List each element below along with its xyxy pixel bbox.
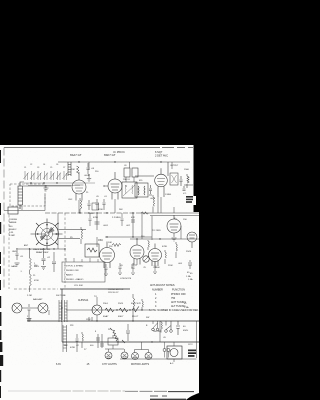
svg-text:6SA7 GT: 6SA7 GT [70,153,82,157]
inner dashed enclosure (band switch) [64,213,66,288]
tube V5b 6SQ7 [149,244,162,267]
svg-text:SW: SW [146,317,149,319]
svg-text:A.C.: A.C. [170,362,174,365]
tube V4 6SA7 converter [100,242,115,269]
svg-text:1500: 1500 [184,169,190,171]
svg-text:I.F.: I.F. [124,165,127,167]
svg-text:C7: C7 [63,167,65,169]
resistor R1 above V1 [77,166,80,174]
city light lamp 2 [121,352,128,359]
svg-text:2.2M: 2.2M [27,295,32,297]
plate resistor under V3 [153,195,155,213]
caps below V2 [96,199,106,210]
resistor horizontal mid [112,244,121,247]
svg-text:9.5MC: 9.5MC [9,235,16,237]
svg-text:750: 750 [171,297,176,300]
ant adjust table [149,272,199,312]
wire to switch [4,186,71,211]
svg-text:6SK7: 6SK7 [118,316,124,318]
svg-text:CITY LIGHTS: CITY LIGHTS [102,363,117,366]
grid cap wire above V4 [95,213,100,230]
svg-text:6SA7: 6SA7 [103,315,109,318]
small cap between lamps [28,304,31,313]
chassis right border wire [120,321,197,359]
resistor 47K [133,294,135,321]
interstage coupling box [170,173,178,185]
svg-text:TO 25Z6: TO 25Z6 [152,230,161,232]
svg-text:2ND I.F.: 2ND I.F. [123,179,131,181]
svg-text:470K: 470K [70,347,76,349]
oscillator coil box [85,244,99,257]
mid wire [105,236,152,238]
black margin strip top-right of sheet [194,145,200,196]
legend notes box [62,262,105,282]
diagonal resistor [110,328,125,343]
left page edge dark ticks [0,150,3,398]
svg-text:OUTPUT: OUTPUT [170,165,179,167]
motor light lamp 2 [145,353,152,360]
svg-text:1.5A: 1.5A [186,275,191,278]
svg-text:3 PHONO + RADIO: 3 PHONO + RADIO [64,278,84,281]
left tuning text cluster [9,219,18,268]
svg-text:V.C.: V.C. [183,193,187,195]
city lights feed box [108,338,118,345]
svg-text:FUNCTION: FUNCTION [172,289,185,292]
svg-text:470K: 470K [162,246,168,248]
svg-text:PHONO MOTOR: PHONO MOTOR [108,289,124,291]
IF transformer T1 (primary boxes) [124,168,130,177]
left filament lamps [12,303,22,313]
svg-text:VOL 50K: VOL 50K [74,285,83,287]
motor lights bracket [135,342,149,353]
IF transformer T1 secondary box with coils [122,182,137,198]
AVC labels [93,217,187,221]
svg-text:PHONO OFF: PHONO OFF [171,293,186,296]
schematic border left (dashed) [3,148,5,291]
svg-text:NUMBER: NUMBER [152,289,163,292]
wires from bus2 down [113,321,174,346]
svg-text:25Z6: 25Z6 [186,251,192,253]
heater string wire [66,309,150,311]
svg-text:S.W.: S.W. [9,232,14,234]
svg-text:PRI: PRI [70,325,74,327]
svg-text:6 SQ7: 6 SQ7 [155,150,163,154]
svg-text:C2: C2 [30,164,32,166]
svg-text:REAR VIEW: REAR VIEW [36,251,49,254]
caps hanging from AVC bus [89,213,124,226]
svg-text:OSC: OSC [68,199,73,201]
dropping resistor vertical [142,299,144,310]
trimmer capacitor row [24,171,68,180]
svg-text:SW POS. 4 SPEED: SW POS. 4 SPEED [64,266,84,268]
ground under gang [44,185,49,191]
chassis bus line 1 [27,320,199,322]
power transformer winding [59,300,67,352]
resistor below V1 [80,198,82,213]
volume pot [143,256,149,262]
svg-text:2.2 MEG: 2.2 MEG [112,217,121,219]
tube V5 6SK7 if amp [130,239,144,265]
rotary wave-band switch SW1 [31,219,87,250]
svg-text:24K: 24K [119,209,123,211]
rectifier tube V7 25Z6 [187,232,197,248]
trimmer labels [24,164,65,169]
junction wire above left components [18,248,65,250]
speaker label block [186,196,193,203]
svg-text:I.F. 455 KC: I.F. 455 KC [113,151,125,154]
AVC resistor on bus [141,212,149,214]
svg-text:1600KC: 1600KC [9,229,17,231]
capacitor above V1 [87,163,90,174]
series resistor 3 [132,306,139,311]
scan speckle texture [2,147,197,365]
svg-text:NOTE: NUMBER IN CASE USED FOR: NOTE: NUMBER IN CASE USED FOR REF. [149,309,199,312]
svg-text:10K: 10K [108,242,112,244]
svg-text:.0001: .0001 [103,225,109,227]
svg-text:50K TONE: 50K TONE [56,295,66,297]
chassis bus line 2 [62,341,199,343]
svg-text:.0002: .0002 [150,198,156,200]
dial lamp [92,305,102,315]
svg-text:1 PHONO OFF: 1 PHONO OFF [64,270,79,272]
svg-text:BALLAST: BALLAST [33,298,43,301]
resistor col [165,250,167,264]
wire under V6 [130,238,199,240]
svg-text:117V: 117V [188,344,193,346]
series resistor 2 [119,308,128,312]
svg-text:115V 60 CY: 115V 60 CY [108,292,119,294]
gang bus under trimmers [24,183,95,185]
svg-text:6SQ7: 6SQ7 [131,303,137,305]
filter caps bottom right [188,260,192,269]
resistor right of V5 [148,240,150,250]
city light lamp 1 [105,352,112,359]
page fold dashed line [8,390,60,392]
coupling caps right of T2 [149,185,152,195]
resistor chain R5 [30,274,32,292]
IF transformer T2 box [135,183,148,197]
svg-text:470K: 470K [34,280,39,282]
svg-text:470K: 470K [98,209,103,211]
cathode RC clusters below tubes [104,262,157,276]
svg-text:LOW NOTE: LOW NOTE [120,278,132,280]
tube V1 6SA7 [72,172,86,201]
black page background (dark viewer background) [0,0,199,400]
svg-text:GANG: GANG [11,265,18,268]
svg-text:2 RADIO: 2 RADIO [64,274,73,277]
extra value labels (scan detail) [12,165,193,365]
svg-text:PILOT: PILOT [132,316,139,318]
svg-text:6.3V: 6.3V [56,363,61,366]
svg-text:MOTOR LIGHTS: MOTOR LIGHTS [131,363,150,366]
ground under V6 [172,233,177,241]
capacitor below V1 [88,200,91,210]
output cluster top right [168,162,193,191]
motor light lamp 1 [132,353,139,360]
section divider line [60,288,130,290]
cap above V5 [131,213,135,237]
ground below [27,313,32,322]
capacitor C9 with ground [41,250,46,270]
svg-text:1.5A: 1.5A [188,278,193,281]
svg-text:470K: 470K [93,217,99,219]
svg-text:TUNING: TUNING [9,219,17,221]
svg-text:CL55/S14: CL55/S14 [78,300,89,302]
svg-text:47K: 47K [137,303,141,305]
series resistor 1 [105,308,114,312]
junction dots scattered [61,161,161,342]
svg-text:C5: C5 [50,167,52,169]
svg-text:C1: C1 [24,167,26,169]
white scanned schematic sheet [0,145,199,400]
svg-text:1.5A: 1.5A [184,306,189,309]
element with plates [126,324,130,341]
svg-text:GND: GND [12,251,17,253]
capacitor C8 left column [15,250,20,266]
svg-text:RANGE: RANGE [9,221,17,224]
schematic border top [4,147,193,149]
top bus wire [58,161,190,163]
svg-text:SEC: SEC [64,345,69,347]
svg-text:OSC: OSC [98,240,103,242]
wire between lamps [22,307,38,309]
svg-text:ANT ADJUST NOTES: ANT ADJUST NOTES [150,284,175,287]
svg-text:25Z6: 25Z6 [118,303,124,305]
terminal box [8,207,18,214]
capacitor C10 [52,252,56,272]
svg-text:1 MEG: 1 MEG [165,194,172,196]
loop antenna coil L1 [18,182,24,209]
antenna coil L0 [68,162,71,176]
vertical feed right [142,213,152,240]
tube V2 6SK7 [108,172,122,200]
motor box [167,346,182,359]
svg-text:220K: 220K [168,265,173,267]
loop antenna dashed enclosure [10,184,45,206]
tube V3 6SQ7 [135,168,167,197]
svg-text:C4: C4 [43,164,45,166]
tube V6 beam power [167,215,181,233]
svg-text:25L6: 25L6 [103,303,109,305]
next page corner black [186,393,199,400]
switch contacts on bus [152,328,155,331]
svg-text:20K: 20K [71,169,75,171]
AVC bus line [45,212,140,214]
bottom caption row [56,363,150,366]
svg-text:2 DET AVC: 2 DET AVC [155,154,168,158]
svg-text:C3: C3 [37,167,39,169]
resistor chain R4 [30,250,32,274]
svg-text:ON-OFF: ON-OFF [153,331,161,333]
svg-text:115V: 115V [86,319,91,321]
svg-text:WAVE BAND SW.: WAVE BAND SW. [33,248,51,251]
svg-text:C6: C6 [56,164,58,166]
115V break ticks [89,317,92,321]
RC pair on bus [76,334,79,352]
extra wires [22,162,186,362]
electrolytic cap [176,321,180,335]
svg-text:450V: 450V [183,330,189,332]
cluster mid [96,334,104,348]
